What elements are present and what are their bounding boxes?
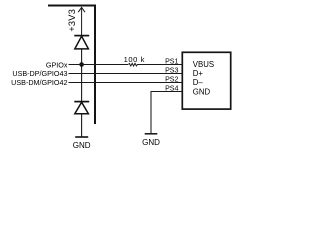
- svg-text:GND: GND: [73, 141, 91, 150]
- svg-text:PS1: PS1: [165, 58, 178, 66]
- svg-text:PS3: PS3: [165, 67, 178, 75]
- ground (right): [145, 133, 158, 135]
- wire: USB-DM to pin PS2: [69, 82, 183, 84]
- svg-text:VBUS: VBUS: [193, 60, 214, 69]
- wire: GPIOx net to resistor: [69, 64, 129, 66]
- diode D2 (ESD clamp to GND): [74, 102, 89, 114]
- wire: diode string vertical: [81, 49, 83, 102]
- svg-text:PS4: PS4: [165, 85, 178, 93]
- power +3V3 arrow: [78, 7, 85, 35]
- svg-text:D+: D+: [193, 69, 204, 78]
- svg-text:+3V3: +3V3: [67, 9, 77, 32]
- wire: pin PS4 to ground: [151, 92, 183, 134]
- svg-text:100 k: 100 k: [124, 55, 145, 64]
- svg-text:PS2: PS2: [165, 76, 178, 84]
- wire: resistor to pin PS1: [137, 64, 182, 66]
- USB connector U1 box: [182, 52, 230, 109]
- svg-text:USB-DP/GPIO43: USB-DP/GPIO43: [12, 69, 67, 78]
- svg-text:GND: GND: [142, 138, 160, 147]
- svg-text:GND: GND: [193, 87, 211, 96]
- svg-text:USB-DM/GPIO42: USB-DM/GPIO42: [11, 78, 67, 87]
- node junction on GPIOx line: [79, 62, 84, 67]
- svg-text:GPIOx: GPIOx: [46, 60, 68, 69]
- wire: USB-DP to pin PS3: [69, 73, 183, 75]
- diode D1 (ESD clamp to +3V3): [74, 36, 89, 49]
- svg-text:D–: D–: [193, 78, 204, 87]
- ground (left): [75, 136, 88, 138]
- module border (PCB outline): [48, 6, 95, 125]
- wire: D2 anode to ground: [81, 114, 83, 137]
- resistor R1 100k: [128, 63, 137, 66]
